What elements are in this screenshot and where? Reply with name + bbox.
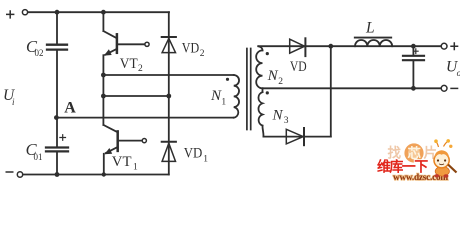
svg-text:N: N [272, 107, 284, 123]
svg-text:3: 3 [284, 116, 289, 126]
svg-text:芯: 芯 [408, 145, 422, 161]
svg-text:VT: VT [112, 154, 132, 170]
svg-text:A: A [64, 100, 76, 117]
svg-text:02: 02 [35, 48, 44, 58]
svg-text:1: 1 [203, 155, 208, 165]
svg-text:N: N [210, 88, 222, 104]
svg-text:o: o [457, 68, 460, 78]
svg-text:2: 2 [138, 64, 143, 74]
svg-text:2: 2 [200, 49, 205, 59]
svg-text:VT: VT [120, 56, 138, 72]
svg-text:VD: VD [184, 146, 203, 162]
svg-text:L: L [365, 19, 375, 36]
svg-text:找: 找 [388, 145, 402, 161]
svg-text:N: N [267, 68, 279, 84]
svg-text:VD: VD [182, 41, 200, 57]
svg-text:VD: VD [290, 59, 307, 75]
svg-text:01: 01 [34, 152, 43, 162]
svg-text:1: 1 [133, 162, 138, 172]
svg-text:2: 2 [278, 77, 283, 87]
svg-text:1: 1 [221, 98, 226, 108]
